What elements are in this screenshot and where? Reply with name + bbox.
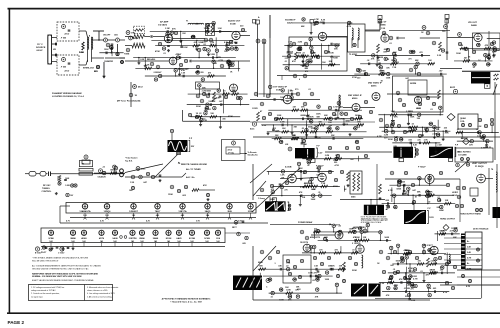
svg-text:220: 220 — [417, 139, 420, 141]
svg-text:68K: 68K — [386, 200, 390, 202]
svg-text:100K: 100K — [277, 115, 282, 117]
svg-text:2.2M: 2.2M — [325, 155, 330, 157]
svg-text:SOURCE: SOURCE — [36, 47, 46, 49]
svg-text:12DQ6: 12DQ6 — [104, 211, 112, 213]
svg-text:1.5K: 1.5K — [130, 182, 135, 184]
svg-text:10K: 10K — [322, 62, 326, 64]
svg-text:1.5K: 1.5K — [280, 175, 285, 177]
svg-text:.005: .005 — [242, 243, 246, 245]
svg-text:TUNING: TUNING — [42, 188, 50, 190]
svg-text:120V: 120V — [429, 217, 434, 219]
svg-text:270K: 270K — [352, 77, 357, 79]
svg-text:1.5K: 1.5K — [203, 120, 208, 122]
svg-text:680K: 680K — [206, 90, 211, 92]
svg-text:39K: 39K — [275, 135, 279, 137]
svg-text:SOUND IF: SOUND IF — [285, 20, 296, 22]
svg-text:270: 270 — [284, 190, 287, 192]
svg-text:33K: 33K — [383, 52, 387, 54]
svg-text:680K: 680K — [397, 188, 402, 190]
svg-text:270: 270 — [335, 155, 338, 157]
svg-text:3.9K: 3.9K — [286, 263, 291, 265]
svg-text:680K: 680K — [230, 62, 235, 64]
svg-text:PAGE 2: PAGE 2 — [8, 320, 25, 325]
svg-text:6: 6 — [299, 79, 300, 81]
svg-text:10K: 10K — [232, 90, 236, 92]
svg-text:39K: 39K — [393, 207, 397, 209]
svg-text:68K: 68K — [417, 192, 421, 194]
svg-text:2.2M: 2.2M — [280, 121, 285, 123]
svg-text:.22: .22 — [147, 59, 150, 61]
svg-text:3.9K: 3.9K — [321, 183, 326, 185]
svg-text:3.9K: 3.9K — [391, 111, 396, 113]
svg-text:.02: .02 — [312, 53, 315, 55]
svg-text:680K: 680K — [384, 49, 389, 51]
svg-text:33K: 33K — [326, 128, 330, 130]
svg-text:3.9K: 3.9K — [218, 28, 223, 30]
svg-text:1.5K: 1.5K — [381, 28, 386, 30]
svg-text:560K: 560K — [405, 250, 410, 252]
svg-text:560K: 560K — [311, 199, 316, 201]
svg-text:33K: 33K — [318, 121, 322, 123]
svg-text:1B 3DT6: 1B 3DT6 — [300, 242, 309, 244]
svg-text:3.9K: 3.9K — [166, 37, 171, 39]
svg-text:68K: 68K — [301, 26, 305, 28]
svg-text:.01: .01 — [53, 49, 56, 51]
svg-text:.F 500: .F 500 — [61, 67, 68, 69]
svg-text:10K: 10K — [216, 97, 220, 99]
svg-text:270: 270 — [410, 289, 413, 291]
svg-text:3.9K: 3.9K — [288, 42, 293, 44]
svg-text:CB1: CB1 — [114, 35, 118, 37]
svg-text:2.2M: 2.2M — [408, 111, 413, 113]
svg-text:.F 500: .F 500 — [61, 38, 68, 40]
svg-text:1.5K: 1.5K — [314, 266, 319, 268]
svg-text:117 V: 117 V — [37, 44, 43, 46]
svg-text:5C6B: 5C6B — [313, 23, 319, 25]
svg-text:RF OSC: RF OSC — [43, 185, 51, 187]
svg-text:3.9K: 3.9K — [454, 227, 459, 229]
svg-text:ON-OFF: ON-OFF — [103, 35, 111, 37]
svg-text:10K: 10K — [393, 52, 397, 54]
svg-text:2BN6: 2BN6 — [139, 238, 145, 240]
svg-text:.22: .22 — [301, 128, 304, 130]
svg-text:.22: .22 — [440, 267, 443, 269]
svg-text:82K: 82K — [394, 146, 398, 148]
svg-text:2.2M: 2.2M — [476, 45, 481, 47]
svg-text:680K: 680K — [225, 49, 230, 51]
svg-text:220: 220 — [200, 72, 203, 74]
svg-text:5C6B: 5C6B — [204, 238, 210, 240]
svg-text:F1 9BQ5: F1 9BQ5 — [475, 166, 484, 168]
svg-text:1-20K: 1-20K — [65, 185, 71, 187]
svg-text:8.2K: 8.2K — [288, 296, 293, 298]
svg-text:560K: 560K — [406, 279, 411, 281]
svg-text:.22: .22 — [407, 124, 410, 126]
svg-text:SND: SND — [262, 43, 267, 45]
svg-text:8.2K: 8.2K — [140, 59, 145, 61]
svg-text:220K: 220K — [196, 106, 201, 108]
svg-text:220: 220 — [418, 260, 421, 262]
svg-text:68K: 68K — [234, 42, 238, 44]
svg-text:B VOLT: B VOLT — [35, 253, 42, 255]
svg-text:82K: 82K — [492, 52, 496, 54]
svg-text:8CGB: 8CGB — [189, 238, 195, 240]
svg-text:33K: 33K — [363, 237, 367, 239]
svg-text:.22: .22 — [199, 113, 202, 115]
svg-text:10K: 10K — [428, 60, 432, 62]
svg-text:560K: 560K — [355, 115, 360, 117]
svg-text:HORIZ OUTPUT: HORIZ OUTPUT — [440, 218, 456, 220]
svg-text:220: 220 — [444, 128, 447, 130]
svg-text:3CB6: 3CB6 — [48, 238, 54, 240]
svg-text:B+: B+ — [467, 263, 469, 265]
svg-text:1.5K: 1.5K — [392, 67, 397, 69]
svg-text:100K: 100K — [316, 113, 321, 115]
svg-text:.02: .02 — [307, 165, 310, 167]
svg-text:82K: 82K — [195, 72, 199, 74]
svg-text:2.2M: 2.2M — [441, 230, 446, 232]
svg-text:.22: .22 — [338, 225, 341, 227]
svg-text:680K: 680K — [270, 199, 275, 201]
svg-text:82K: 82K — [324, 237, 328, 239]
svg-text:82K: 82K — [329, 61, 333, 63]
svg-text:100K: 100K — [280, 97, 285, 99]
svg-text:B+: B+ — [467, 241, 469, 243]
svg-text:1.5K: 1.5K — [181, 72, 186, 74]
svg-text:Top N.S.: Top N.S. — [125, 161, 133, 163]
svg-text:220K: 220K — [352, 270, 357, 272]
svg-text:1.5K: 1.5K — [281, 100, 286, 102]
svg-text:2 12DQ6: 2 12DQ6 — [352, 243, 361, 245]
svg-text:3.9K: 3.9K — [417, 108, 422, 110]
svg-text:.005: .005 — [222, 118, 226, 120]
svg-text:.02: .02 — [367, 60, 370, 62]
svg-text:8.2K: 8.2K — [411, 300, 416, 302]
svg-text:220: 220 — [357, 77, 360, 79]
svg-text:39K: 39K — [301, 107, 305, 109]
svg-text:1.2meg: 1.2meg — [258, 198, 266, 200]
svg-text:270: 270 — [285, 58, 288, 60]
svg-text:68K: 68K — [357, 121, 361, 123]
svg-text:.22: .22 — [488, 147, 491, 149]
svg-text:270: 270 — [319, 249, 322, 251]
svg-text:8.2K: 8.2K — [181, 70, 186, 72]
svg-text:.22: .22 — [303, 173, 306, 175]
svg-text:680K: 680K — [301, 115, 306, 117]
svg-text:.02: .02 — [411, 124, 414, 126]
svg-text:68K: 68K — [415, 60, 419, 62]
svg-text:270: 270 — [202, 42, 205, 44]
svg-text:100K: 100K — [436, 134, 441, 136]
svg-text:3.9K: 3.9K — [408, 276, 413, 278]
svg-text:2.2M: 2.2M — [472, 64, 477, 66]
svg-text:5C6B: 5C6B — [230, 23, 236, 25]
svg-text:3BN6: 3BN6 — [70, 238, 76, 240]
svg-text:2ND VIDEO IF: 2ND VIDEO IF — [348, 95, 362, 97]
svg-text:560K: 560K — [411, 52, 416, 54]
svg-text:.22: .22 — [286, 265, 289, 267]
svg-text:TONE: TONE — [124, 54, 130, 56]
svg-text:2BY7: 2BY7 — [232, 227, 237, 229]
svg-text:8.2K: 8.2K — [224, 42, 229, 44]
svg-text:6.3V: 6.3V — [466, 286, 471, 288]
svg-text:BUZZ: BUZZ — [450, 87, 456, 89]
svg-text:120K: 120K — [104, 49, 109, 51]
svg-text:68K: 68K — [334, 49, 338, 51]
svg-text:.22: .22 — [377, 60, 380, 62]
svg-text:LIN: LIN — [285, 144, 289, 146]
svg-text:3.9K: 3.9K — [290, 100, 295, 102]
svg-text:.005: .005 — [406, 191, 410, 193]
svg-text:3.9K: 3.9K — [427, 288, 432, 290]
svg-text:.22: .22 — [102, 166, 105, 168]
svg-text:10K: 10K — [407, 288, 411, 290]
svg-text:PILOT: PILOT — [41, 252, 47, 254]
svg-text:8.2K: 8.2K — [102, 176, 107, 178]
svg-text:8.2K: 8.2K — [478, 126, 483, 128]
svg-text:8.2K: 8.2K — [145, 65, 150, 67]
svg-text:8.2K: 8.2K — [321, 19, 326, 21]
svg-text:100K: 100K — [428, 123, 433, 125]
svg-text:20 MCT MODULE: 20 MCT MODULE — [473, 229, 489, 231]
svg-text:CONV: CONV — [252, 108, 258, 110]
svg-text:120K: 120K — [386, 77, 391, 79]
svg-text:2.2M: 2.2M — [165, 28, 170, 30]
svg-text:3.9K: 3.9K — [431, 269, 436, 271]
svg-text:82K: 82K — [362, 70, 366, 72]
svg-text:10K: 10K — [285, 287, 289, 289]
svg-text:8.2K: 8.2K — [413, 144, 418, 146]
svg-text:FUSE: FUSE — [79, 52, 85, 54]
svg-text:270: 270 — [313, 272, 316, 274]
svg-text:220K: 220K — [388, 139, 393, 141]
svg-text:82K: 82K — [212, 101, 216, 103]
svg-text:18K: 18K — [129, 190, 133, 192]
svg-text:8CG8: 8CG8 — [166, 238, 172, 240]
svg-text:.02: .02 — [407, 285, 410, 287]
svg-text:120K: 120K — [399, 139, 404, 141]
svg-text:120K: 120K — [210, 54, 215, 56]
svg-text:680K: 680K — [258, 262, 263, 264]
svg-text:3.9K: 3.9K — [424, 139, 429, 141]
svg-text:3.9K: 3.9K — [191, 37, 196, 39]
svg-text:3.3K: 3.3K — [380, 283, 385, 285]
svg-text:2ND VIDEO IF: 2ND VIDEO IF — [368, 83, 382, 85]
svg-text:100K: 100K — [410, 116, 415, 118]
svg-text:T2: T2 — [82, 164, 84, 166]
svg-text:150K: 150K — [168, 194, 173, 196]
svg-text:1.5K: 1.5K — [306, 162, 311, 164]
svg-text:2.2M: 2.2M — [304, 183, 309, 185]
svg-text:2.2M: 2.2M — [412, 276, 417, 278]
svg-text:10K: 10K — [210, 113, 214, 115]
svg-text:120K: 120K — [325, 279, 330, 281]
svg-text:12K: 12K — [224, 51, 228, 53]
svg-text:2.2M: 2.2M — [437, 144, 442, 146]
svg-text:.22: .22 — [289, 90, 292, 92]
svg-text:680K: 680K — [345, 120, 350, 122]
svg-text:.01: .01 — [437, 197, 440, 199]
svg-text:2.2K: 2.2K — [437, 55, 442, 57]
svg-text:2.2M: 2.2M — [384, 134, 389, 136]
svg-text:100K: 100K — [355, 237, 360, 239]
svg-text:39K: 39K — [282, 128, 286, 130]
svg-text:220: 220 — [402, 182, 405, 184]
svg-text:2.2M: 2.2M — [298, 42, 303, 44]
svg-text:COIL: COIL — [460, 121, 466, 123]
svg-text:100K: 100K — [289, 52, 294, 54]
svg-text:270: 270 — [408, 59, 411, 61]
svg-text:WILL BE USED THROUGHOUT: WILL BE USED THROUGHOUT — [32, 260, 59, 262]
svg-text:560K: 560K — [379, 57, 384, 59]
svg-text:1.5K: 1.5K — [424, 128, 429, 130]
svg-text:680K: 680K — [311, 189, 316, 191]
svg-text:HORIZ: HORIZ — [452, 192, 459, 194]
svg-text:39K: 39K — [417, 118, 421, 120]
svg-text:33K: 33K — [278, 266, 282, 268]
svg-text:3.9K: 3.9K — [445, 133, 450, 135]
svg-text:2.2M: 2.2M — [308, 58, 313, 60]
svg-text:680K: 680K — [352, 228, 357, 230]
svg-text:8.2K: 8.2K — [279, 142, 284, 144]
svg-text:2.2M: 2.2M — [153, 72, 158, 74]
svg-text:.22: .22 — [302, 53, 305, 55]
svg-text:120K: 120K — [330, 266, 335, 268]
svg-text:VID OUT: VID OUT — [468, 22, 478, 24]
svg-text:8.2K: 8.2K — [317, 175, 322, 177]
svg-text:1.5K: 1.5K — [210, 42, 215, 44]
svg-text:INTERLOCK: INTERLOCK — [83, 68, 95, 70]
svg-text:2.2M: 2.2M — [308, 61, 313, 63]
svg-text:3UB: 3UB — [227, 211, 232, 213]
svg-text:5.2V: 5.2V — [318, 152, 323, 154]
svg-text:100K: 100K — [333, 58, 338, 60]
svg-text:1.5K: 1.5K — [394, 136, 399, 138]
svg-text:33K: 33K — [339, 266, 343, 268]
svg-text:10K: 10K — [328, 122, 332, 124]
svg-text:.P Vdc: .P Vdc — [228, 153, 235, 155]
svg-text:.005: .005 — [203, 110, 207, 112]
svg-text:68K: 68K — [324, 115, 328, 117]
svg-text:100K: 100K — [65, 178, 70, 180]
svg-text:1ST VIDEO IF: 1ST VIDEO IF — [273, 87, 288, 89]
svg-text:560K: 560K — [380, 70, 385, 72]
svg-text:120K: 120K — [428, 192, 433, 194]
svg-text:39K: 39K — [268, 279, 272, 281]
svg-text:VERT OUTPUT: VERT OUTPUT — [472, 163, 487, 165]
svg-text:120K: 120K — [183, 47, 188, 49]
svg-text:100K: 100K — [279, 299, 284, 301]
svg-text:2.2K: 2.2K — [262, 125, 267, 127]
svg-text:10K: 10K — [445, 200, 449, 202]
svg-text:2.2M: 2.2M — [202, 90, 207, 92]
svg-text:82K: 82K — [205, 108, 209, 110]
svg-text:680K: 680K — [439, 210, 444, 212]
svg-text:220: 220 — [334, 162, 337, 164]
svg-text:CONTROL: CONTROL — [42, 191, 53, 193]
svg-text:120K: 120K — [286, 290, 291, 292]
svg-text:100K: 100K — [395, 260, 400, 262]
svg-text:SR1: SR1 — [94, 71, 98, 73]
svg-text:82K: 82K — [293, 135, 297, 137]
svg-text:100K: 100K — [456, 53, 461, 55]
svg-text:2.2M: 2.2M — [495, 50, 500, 52]
svg-text:8.2K: 8.2K — [464, 138, 469, 140]
svg-text:NORM: NORM — [410, 83, 416, 85]
svg-text:560K: 560K — [486, 64, 491, 66]
svg-text:6BN6: 6BN6 — [380, 24, 386, 26]
svg-text:560K: 560K — [385, 237, 390, 239]
svg-text:60 HZ: 60 HZ — [37, 50, 44, 52]
svg-text:68K: 68K — [259, 266, 263, 268]
svg-text:39K: 39K — [331, 135, 335, 137]
svg-text:100K: 100K — [308, 272, 313, 274]
svg-text:C VOLT: C VOLT — [58, 253, 65, 255]
